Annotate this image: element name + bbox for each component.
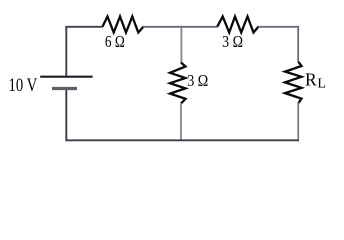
resistor 3-ohm middle zigzag [170, 63, 186, 104]
resistor 6-ohm zigzag [103, 17, 144, 33]
wire top-left corner segment [66, 27, 103, 77]
svg-text:RL: RL [305, 69, 326, 91]
resistor 3-ohm top zigzag [217, 17, 258, 33]
battery short plate [52, 87, 77, 90]
svg-text:10 V: 10 V [9, 75, 38, 96]
wire middle stub bottom [180, 103, 182, 141]
wire top-right corner segment [258, 27, 298, 63]
svg-text:3 Ω: 3 Ω [222, 32, 243, 51]
resistor RL zigzag [285, 62, 302, 103]
wire top-middle segment [143, 26, 217, 28]
wire middle stub top [180, 27, 182, 63]
svg-text:3 Ω: 3 Ω [187, 71, 208, 90]
wire bottom segment [66, 88, 299, 140]
wire right-bottom stub [297, 103, 299, 141]
battery long plate [40, 76, 92, 78]
svg-text:6 Ω: 6 Ω [105, 32, 125, 51]
